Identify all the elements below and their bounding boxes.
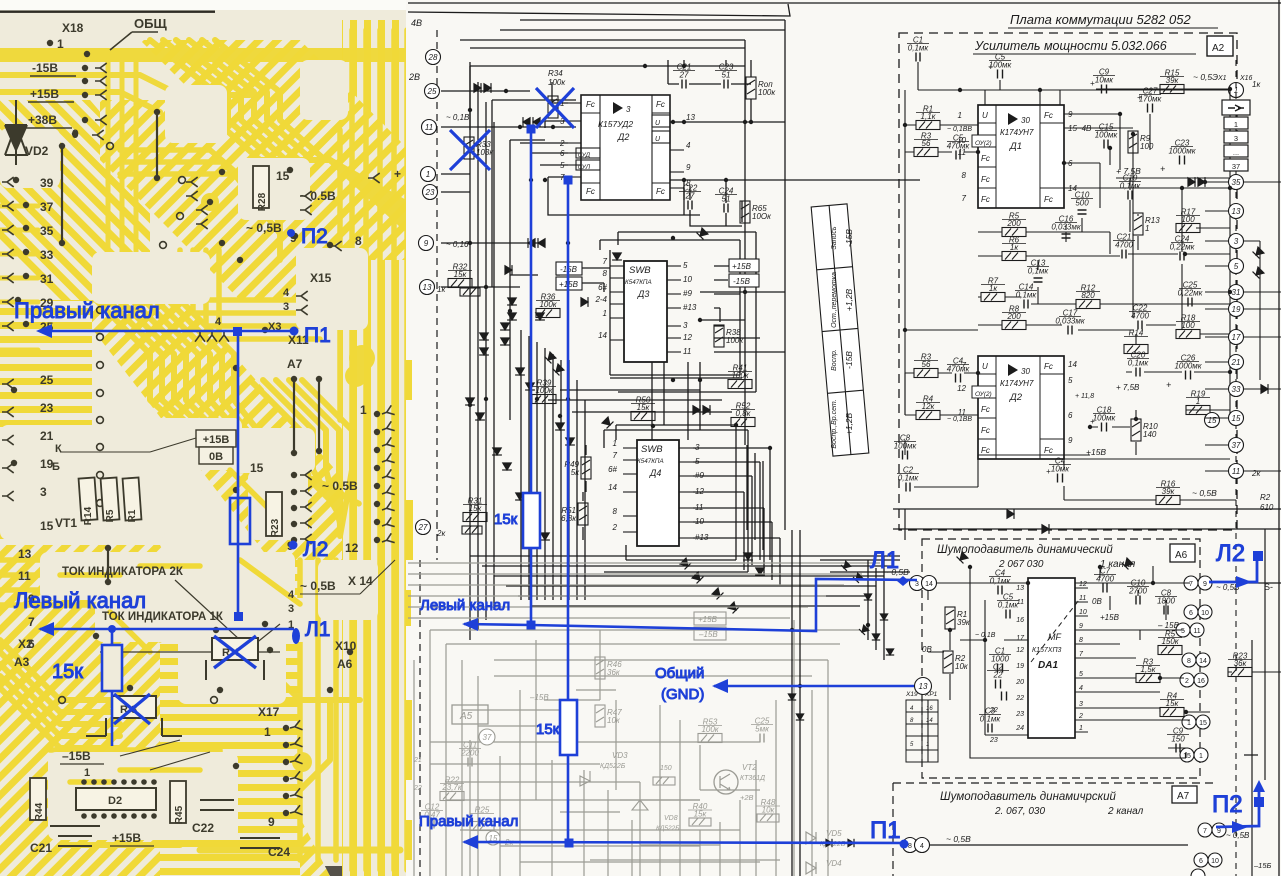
svg-text:31: 31 [40, 272, 54, 286]
svg-text:~ 0,5В: ~ 0,5В [300, 579, 336, 593]
svg-text:11: 11 [425, 123, 433, 132]
svg-text:22: 22 [1015, 695, 1024, 702]
capacitor С21 [1122, 250, 1126, 259]
svg-text:12: 12 [1079, 581, 1087, 588]
svg-text:100мк: 100мк [1095, 131, 1119, 140]
svg-text:Fc: Fc [981, 426, 990, 435]
svg-text:Fc: Fc [656, 100, 665, 109]
resistor R8 [1002, 321, 1026, 330]
svg-text:14: 14 [925, 581, 933, 588]
svg-text:10к: 10к [955, 662, 969, 671]
diode arrow [515, 493, 525, 500]
svg-text:4: 4 [288, 589, 295, 601]
svg-text:1: 1 [264, 725, 271, 739]
svg-text:ОУ(2): ОУ(2) [975, 140, 992, 147]
svg-text:12: 12 [345, 541, 359, 555]
noise reducer block А6 [922, 539, 1200, 778]
svg-text:22: 22 [413, 785, 422, 792]
resistor R22 [440, 792, 464, 801]
IC D4 SWB К547КПА [637, 440, 679, 546]
svg-text:150: 150 [660, 765, 672, 772]
svg-text:0В: 0В [922, 645, 932, 654]
svg-text:2В: 2В [408, 72, 420, 82]
svg-text:#13: #13 [683, 303, 697, 312]
diode arrow [886, 649, 894, 655]
node contact 21 [1229, 355, 1244, 370]
svg-text:37: 37 [1232, 441, 1241, 450]
svg-text:0,033мк: 0,033мк [1051, 223, 1082, 232]
node contact 11 [1229, 464, 1244, 479]
node П2 (left) [287, 229, 295, 237]
svg-text:6#: 6# [608, 465, 617, 474]
svg-text:100к: 100к [535, 386, 553, 395]
blue resistor box on vertical [230, 498, 250, 544]
diode arrow [523, 117, 530, 127]
svg-text:КД522Б: КД522Б [656, 825, 679, 832]
resistor R25 [470, 822, 494, 831]
node contact 13 [1229, 204, 1244, 219]
svg-text:15к: 15к [454, 270, 468, 279]
svg-text:+: + [394, 167, 401, 181]
resistor R49 [581, 457, 591, 479]
resistor R7 [981, 293, 1005, 302]
svg-text:+: + [1137, 93, 1142, 102]
node contact 31 [1229, 285, 1244, 300]
svg-text:1: 1 [1196, 397, 1200, 406]
svg-text:А2: А2 [1212, 43, 1225, 54]
svg-text:Воспр.,Вр.сет.: Воспр.,Вр.сет. [831, 399, 838, 448]
svg-text:100к: 100к [701, 725, 719, 734]
svg-text:C21: C21 [30, 841, 52, 855]
capacitor С4 [998, 586, 1002, 595]
svg-text:~ 0,5В: ~ 0,5В [246, 221, 282, 235]
wire Общий [714, 685, 914, 688]
resistor R33 [464, 137, 474, 159]
capacitor С1 [998, 664, 1003, 673]
capacitor С4 [1058, 474, 1063, 483]
resistor R5 [1158, 646, 1182, 655]
diode arrow [538, 238, 545, 248]
svg-text:19: 19 [1232, 305, 1241, 314]
svg-text:Правый канал: Правый канал [14, 298, 160, 323]
svg-text:39: 39 [40, 176, 54, 190]
resistor R [653, 777, 675, 785]
svg-text:~ 0,1В: ~ 0,1В [446, 113, 470, 122]
svg-text:14: 14 [1068, 360, 1077, 369]
svg-text:100к: 100к [548, 78, 566, 87]
svg-text:8: 8 [603, 269, 608, 278]
svg-text:3: 3 [1234, 134, 1238, 143]
svg-text:14: 14 [926, 718, 933, 724]
label box +15В / 0В [196, 430, 236, 464]
svg-text:15к: 15к [536, 721, 560, 738]
svg-text:+1,2В: +1,2В [844, 288, 854, 311]
svg-text:6: 6 [1189, 610, 1193, 617]
svg-text:Fc: Fc [981, 405, 990, 414]
svg-text:К: К [55, 443, 62, 455]
diode arrow [540, 533, 550, 540]
svg-text:21: 21 [1231, 358, 1241, 367]
capacitor С10 [1136, 596, 1140, 605]
resistor R-4 pads [206, 638, 264, 680]
contact pair 8/14 [1182, 653, 1196, 667]
diode arrow [528, 238, 535, 248]
svg-text:39к: 39к [1162, 487, 1176, 496]
svg-text:5: 5 [1234, 262, 1239, 271]
resistor R4 [916, 411, 940, 420]
faded schematic region [408, 563, 880, 876]
svg-text:30: 30 [1021, 116, 1030, 125]
svg-text:200: 200 [1006, 312, 1021, 321]
svg-text:ОУ(2): ОУ(2) [975, 391, 992, 398]
svg-text:#9: #9 [695, 471, 704, 480]
blue resistor 15к lower [560, 700, 577, 755]
svg-text:Л2: Л2 [1216, 540, 1245, 567]
svg-text:+ 7,5В: + 7,5В [1116, 383, 1140, 392]
svg-text:0,1мк: 0,1мк [908, 44, 930, 53]
svg-text:3: 3 [915, 581, 919, 588]
resistor R3 [914, 369, 938, 378]
svg-text:VT2: VT2 [742, 763, 757, 772]
svg-text:Б: Б [52, 461, 60, 473]
diode arrow [872, 634, 880, 640]
svg-text:КД522Б: КД522Б [600, 763, 626, 770]
svg-text:К157УД2: К157УД2 [598, 119, 633, 129]
svg-text:30: 30 [1021, 367, 1030, 376]
diode arrow [492, 448, 502, 455]
svg-text:10мк: 10мк [1095, 76, 1114, 85]
resistor R50 [631, 412, 655, 421]
svg-text:2. 067, 030: 2. 067, 030 [994, 806, 1045, 817]
svg-text:1: 1 [613, 439, 617, 448]
svg-text:-15В: -15В [844, 351, 854, 369]
diode arrow [680, 558, 692, 570]
svg-text:1: 1 [1187, 720, 1191, 727]
svg-text:1к: 1к [989, 284, 998, 293]
resistor R9 [1128, 131, 1138, 153]
svg-text:27: 27 [418, 523, 428, 532]
op-amp IC Д1 К174УН7 [978, 105, 1064, 208]
capacitor С21 [682, 80, 686, 89]
svg-text:150к: 150к [1161, 637, 1179, 646]
svg-text:7: 7 [962, 194, 967, 203]
svg-text:–15Б: –15Б [1253, 861, 1272, 870]
diode arrow [864, 594, 872, 600]
svg-text:1: 1 [360, 403, 367, 417]
svg-text:6: 6 [1199, 858, 1203, 865]
node contact 33 [1229, 382, 1244, 397]
svg-text:А7: А7 [287, 357, 303, 371]
svg-text:13: 13 [1016, 585, 1024, 592]
svg-text:9: 9 [1217, 828, 1221, 835]
resistor R-3 pads [86, 696, 182, 736]
svg-text:0,033мк: 0,033мк [1055, 317, 1086, 326]
svg-text:МF: МF [1048, 632, 1061, 642]
svg-text:3: 3 [626, 105, 631, 114]
svg-text:А6: А6 [1175, 550, 1188, 561]
svg-text:16: 16 [1016, 617, 1024, 624]
svg-text:–15В: –15В [529, 693, 549, 702]
resistor R3 [914, 148, 938, 157]
svg-text:+ 11,8: + 11,8 [1075, 393, 1094, 400]
svg-text:К157ХП3: К157ХП3 [1032, 647, 1062, 654]
capacitor С12 [430, 820, 434, 829]
svg-text:11: 11 [1193, 628, 1200, 635]
svg-text:4: 4 [686, 141, 691, 150]
svg-text:R14: R14 [83, 506, 94, 525]
svg-text:25: 25 [40, 373, 54, 387]
resistor R [548, 96, 558, 118]
wire Правый канал [464, 842, 908, 843]
svg-text:2: 2 [612, 523, 618, 532]
svg-text:15к: 15к [637, 403, 651, 412]
node dot near Л1 [897, 576, 909, 586]
svg-text:Fc: Fc [981, 446, 990, 455]
svg-text:0В: 0В [1092, 597, 1102, 606]
capacitor С24 [1180, 252, 1184, 261]
svg-text:5: 5 [683, 261, 688, 270]
svg-text:9: 9 [1068, 436, 1073, 445]
capacitor С13 [1034, 278, 1043, 282]
svg-text:12к: 12к [922, 402, 936, 411]
resistor R31 [463, 513, 487, 522]
svg-text:+: + [1166, 380, 1171, 390]
svg-text:К174УН7: К174УН7 [1000, 379, 1034, 388]
resistor Rоп [746, 77, 756, 99]
svg-text:1: 1 [1199, 753, 1203, 760]
capacitor С3 [988, 724, 992, 733]
svg-text:3: 3 [288, 603, 294, 615]
diode arrow [500, 338, 510, 345]
svg-text:170мк: 170мк [1139, 95, 1163, 104]
resistor R45 [170, 781, 186, 823]
svg-text:+15В: +15В [30, 87, 59, 101]
svg-text:4: 4 [215, 316, 222, 328]
svg-text:~ 0,5Э: ~ 0,5Э [1193, 72, 1218, 82]
svg-text:0,1мк: 0,1мк [1120, 182, 1142, 191]
contact pair 7/9 [1184, 576, 1198, 590]
svg-text:Fc: Fc [1044, 362, 1053, 371]
node contact 37 [479, 729, 495, 745]
svg-text:VD8: VD8 [664, 815, 678, 822]
capacitor С9 [1176, 744, 1180, 753]
svg-text:1к: 1к [1010, 243, 1019, 252]
svg-text:11: 11 [683, 347, 691, 356]
wire vertical from П1 line [237, 331, 240, 613]
diode arrow [859, 625, 869, 635]
svg-text:+: + [1090, 417, 1095, 426]
svg-text:37: 37 [483, 733, 492, 742]
diode arrow [507, 298, 517, 305]
svg-text:R5: R5 [105, 509, 116, 522]
svg-text:13: 13 [1232, 207, 1241, 216]
yellow trace field [0, 545, 330, 876]
resistor R [462, 526, 482, 534]
diode arrow [474, 83, 481, 93]
resistor 15к (blue, left) [102, 645, 122, 691]
svg-text:Левый канал: Левый канал [14, 588, 146, 613]
wire 15k branch [111, 629, 114, 746]
svg-text:2к: 2к [1251, 469, 1261, 478]
diode arrow [500, 323, 510, 330]
svg-text:Воспр.: Воспр. [831, 349, 838, 371]
diode arrow [826, 839, 832, 847]
node П1 (left) [290, 327, 299, 336]
contact pair 6/10 [1184, 605, 1198, 619]
diode arrow [712, 588, 724, 600]
svg-text:15: 15 [1183, 753, 1191, 760]
capacitor С22 [1138, 321, 1142, 330]
node contact 19 [1229, 302, 1244, 317]
svg-text:5: 5 [695, 457, 700, 466]
node contact 28 [426, 50, 441, 65]
svg-text:24: 24 [1015, 725, 1024, 732]
op-amp IC D2 К157УД2 [576, 95, 670, 200]
resistor R23 [1228, 668, 1252, 677]
capacitor С15 [1104, 140, 1108, 149]
node contact 27 [416, 520, 431, 535]
capacitor С4 [956, 374, 961, 383]
resistor R36 [536, 309, 560, 318]
svg-text:0,1мк: 0,1мк [1016, 291, 1038, 300]
diode arrow [693, 405, 700, 415]
svg-text:13: 13 [686, 113, 695, 122]
svg-text:22: 22 [989, 707, 998, 714]
svg-text:R45: R45 [174, 805, 185, 824]
svg-text:К174УН7: К174УН7 [1000, 128, 1034, 137]
svg-text:Fc: Fc [586, 100, 595, 109]
svg-text:Д1: Д1 [1009, 141, 1022, 152]
cream islands [0, 60, 378, 840]
svg-text:35: 35 [40, 224, 54, 238]
svg-text:470мк: 470мк [947, 142, 971, 151]
svg-text:9: 9 [424, 239, 429, 248]
svg-text:16: 16 [926, 706, 933, 712]
svg-text:~ 0.5В: ~ 0.5В [322, 479, 358, 493]
svg-text:П1: П1 [870, 817, 901, 844]
diode arrow [841, 561, 851, 571]
resistor R32 [448, 279, 472, 288]
dashed bus left [436, 30, 438, 560]
svg-text:А3: А3 [14, 655, 30, 669]
svg-text:Fc: Fc [981, 195, 990, 204]
diode arrow [553, 364, 565, 376]
right page edge [1278, 0, 1280, 876]
svg-text:12: 12 [1016, 647, 1024, 654]
resistor R19 [1186, 406, 1210, 415]
diode arrow [1122, 558, 1134, 570]
svg-text:3: 3 [283, 301, 289, 313]
svg-text:100к: 100к [758, 88, 776, 97]
svg-text:3: 3 [683, 321, 688, 330]
svg-text:15: 15 [1232, 414, 1241, 423]
svg-text:0,1мк: 0,1мк [998, 601, 1020, 610]
diode arrow [612, 253, 622, 260]
svg-text:4В: 4В [411, 18, 422, 28]
mode table (rotated) [811, 204, 869, 456]
svg-text:+15В: +15В [203, 434, 230, 446]
diode arrow [1261, 384, 1268, 394]
capacitor С25 [1188, 298, 1192, 307]
diode arrow [555, 423, 565, 430]
resistor R [460, 288, 480, 296]
svg-text:21: 21 [413, 757, 422, 764]
diode arrow [703, 405, 710, 415]
svg-text:4: 4 [283, 287, 290, 299]
svg-text:U: U [982, 111, 988, 120]
svg-text:4: 4 [1079, 685, 1083, 692]
svg-text:0,1мк: 0,1мк [980, 715, 1002, 724]
diode arrow [484, 83, 491, 93]
svg-text:100: 100 [1140, 142, 1154, 151]
node contact 13 [915, 678, 932, 695]
svg-text:1: 1 [603, 309, 607, 318]
svg-text:5: 5 [560, 161, 565, 170]
diode arrow [1198, 177, 1205, 187]
svg-text:15: 15 [250, 461, 264, 475]
svg-text:–15В: –15В [62, 749, 91, 763]
node Л2 (left) [289, 541, 298, 550]
svg-text:X18: X18 [62, 21, 84, 35]
svg-text:100мк: 100мк [1093, 414, 1117, 423]
svg-text:U: U [982, 362, 988, 371]
svg-text:8: 8 [1079, 637, 1083, 644]
capacitor С16 [1062, 234, 1071, 238]
resistor R1 [945, 607, 955, 629]
contact pair 5/11 [1176, 623, 1190, 637]
svg-text:1: 1 [1079, 725, 1083, 732]
resistor R15 [1160, 85, 1184, 94]
blue resistor 15к upper [523, 493, 540, 548]
resistor R2 [943, 651, 953, 673]
page top edge line [408, 4, 790, 16]
node contact 1 [421, 167, 436, 182]
svg-text:~ 0,5В: ~ 0,5В [1226, 831, 1250, 840]
svg-text:10: 10 [1079, 609, 1087, 616]
svg-text:Fc: Fc [981, 154, 990, 163]
svg-text:X16: X16 [1239, 75, 1253, 82]
resistor R18 [1176, 330, 1200, 339]
diode arrow [880, 614, 888, 620]
svg-text:10Ок: 10Ок [752, 212, 772, 221]
svg-text:9: 9 [1203, 581, 1207, 588]
capacitor С5 [1006, 610, 1010, 619]
svg-text:R1: R1 [127, 509, 138, 522]
svg-text:+: + [1160, 164, 1165, 174]
node П1 (right) [900, 840, 909, 849]
svg-text:2к: 2к [436, 529, 446, 538]
resistor R52 [731, 418, 755, 427]
contact pair 2/16 [1180, 673, 1194, 687]
blue cross over R34 [536, 88, 574, 128]
resistor R14 [1124, 345, 1148, 354]
svg-text:+15В: +15В [112, 831, 141, 845]
svg-text:2 канал: 2 канал [1107, 806, 1144, 817]
resistor R23 [266, 492, 282, 536]
svg-text:11: 11 [1079, 595, 1086, 602]
svg-text:23,7к: 23,7к [441, 783, 463, 792]
capacitor С8 [1164, 606, 1168, 615]
svg-text:103к: 103к [476, 148, 494, 157]
svg-text:15к: 15к [469, 504, 483, 513]
svg-text:15к: 15к [52, 661, 83, 683]
svg-text:7: 7 [603, 257, 608, 266]
op-amp IC Д2 К174УН7 [978, 356, 1064, 459]
svg-text:140: 140 [1143, 430, 1157, 439]
svg-text:11: 11 [695, 503, 703, 512]
svg-text:19: 19 [1016, 663, 1024, 670]
svg-text:820: 820 [1081, 291, 1095, 300]
